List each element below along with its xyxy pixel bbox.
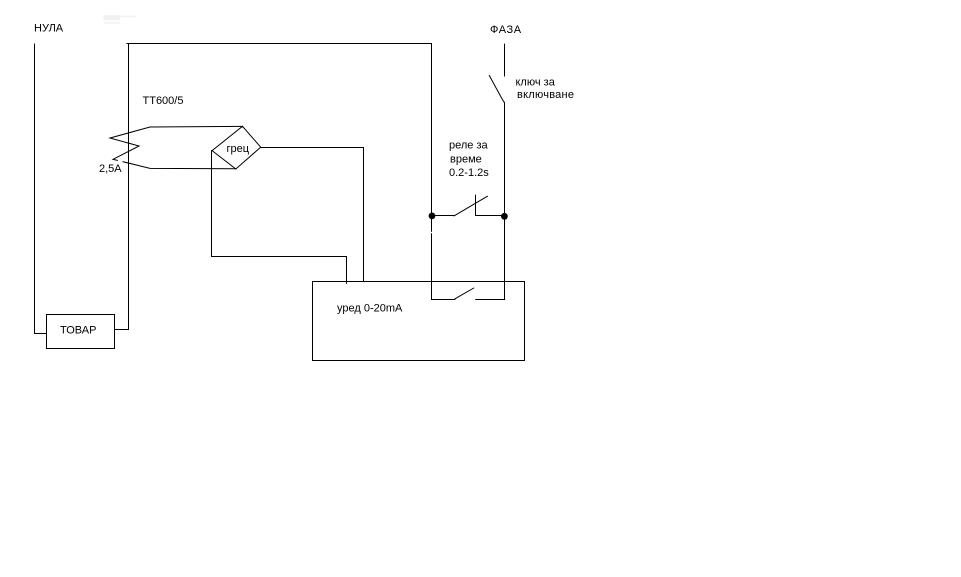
transformer T1 primary zigzag (110, 127, 150, 160)
svg-text:ключ за: ключ за (516, 76, 556, 88)
switch S1 ключ за включване blade (489, 44, 504, 102)
relay K1 contact left lead (434, 215, 454, 217)
wire neutral vertical left (35, 44, 47, 334)
device box уред 0-20mA (313, 282, 525, 361)
svg-text:грец: грец (227, 143, 250, 155)
wire right branch down to relay node (431, 44, 433, 300)
svg-text:реле за: реле за (449, 139, 489, 151)
wire bridge left output down (212, 151, 347, 284)
svg-text:2,5А: 2,5А (99, 163, 122, 175)
wire top horizontal (127, 43, 432, 45)
wire phase down from switch (504, 102, 506, 299)
wire left branch down to load (115, 44, 129, 330)
device internal contact left lead (432, 299, 455, 301)
wire transformer top link (150, 125, 242, 128)
svg-text:включване: включване (517, 89, 574, 101)
relay K1 contact stub and right lead (476, 195, 502, 215)
device internal contact blade (455, 288, 474, 299)
svg-text:0.2-1.2s: 0.2-1.2s (449, 167, 489, 179)
svg-text:ТТ600/5: ТТ600/5 (143, 95, 184, 107)
junction node left (429, 213, 436, 220)
relay K1 contact blade (454, 196, 488, 216)
svg-text:време: време (450, 154, 482, 166)
wire transformer bottom link (123, 162, 236, 169)
wire bridge right output (261, 148, 364, 282)
device internal contact right lead (476, 299, 505, 301)
bridge rectifier грец diamond (212, 126, 261, 169)
faint smudge top (104, 15, 137, 24)
load box ТОВАР (47, 315, 115, 349)
svg-text:ФАЗА: ФАЗА (490, 24, 522, 36)
svg-text:уред 0-20mA: уред 0-20mA (337, 303, 403, 315)
svg-text:НУЛА: НУЛА (34, 22, 64, 34)
svg-text:ТОВАР: ТОВАР (60, 324, 96, 336)
junction node right (501, 213, 508, 220)
